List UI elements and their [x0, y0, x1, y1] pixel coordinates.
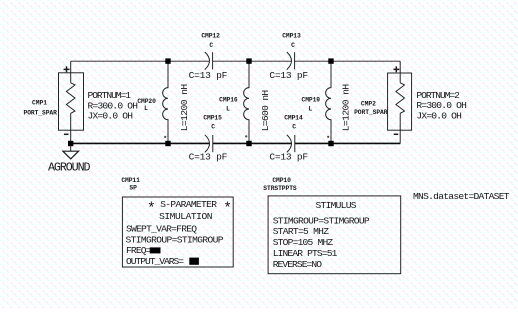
svg-text:MNS.dataset=DATASET: MNS.dataset=DATASET	[413, 191, 510, 202]
svg-text:JX=0.0 OH: JX=0.0 OH	[416, 111, 462, 122]
value box FREQ= filled rect	[150, 247, 161, 253]
svg-text:C: C	[211, 124, 215, 131]
svg-text:C=13 pF: C=13 pF	[189, 70, 228, 81]
svg-text:PORT_SPAR: PORT_SPAR	[24, 109, 58, 116]
svg-text:STOP=105 MHZ: STOP=105 MHZ	[273, 237, 334, 248]
svg-text:CMP15: CMP15	[203, 115, 222, 122]
port CMP2 minus terminal mark	[394, 133, 399, 135]
pin dot CMP20 pin2	[164, 136, 166, 138]
svg-text:CMP13: CMP13	[282, 33, 301, 40]
port CMP1 plus terminal mark	[64, 66, 70, 72]
svg-text:CMP2: CMP2	[361, 101, 376, 108]
svg-text:FREQ=: FREQ=	[126, 245, 152, 256]
pin dot CMP19 pin2	[327, 136, 329, 138]
svg-text:CMP20: CMP20	[137, 98, 156, 105]
svg-text:CMP1: CMP1	[32, 100, 47, 107]
resistor zigzag inside port CMP1	[66, 83, 75, 114]
svg-text:C=13 pF: C=13 pF	[269, 70, 308, 81]
svg-text:STIMGROUP=STIMGROUP: STIMGROUP=STIMGROUP	[126, 235, 224, 246]
port CMP1 PORT_SPAR box	[59, 73, 84, 130]
stimulus box CMP10 STRSTPPTS outline	[268, 196, 401, 274]
junction node bottom rail / CMP19	[328, 141, 333, 146]
wire top rail segment 3 (C13 to port2)	[295, 60, 401, 62]
wire bottom rail segment 1 (port1/ground to C15)	[71, 142, 210, 144]
svg-text:C=13 pF: C=13 pF	[189, 151, 228, 162]
wire port1 vertical (top rail through P1 to ground)	[70, 61, 72, 151]
svg-text:C: C	[291, 42, 295, 49]
svg-text:L=1200 nH: L=1200 nH	[179, 84, 190, 132]
svg-text:S-PARAMETER: S-PARAMETER	[160, 199, 217, 210]
svg-text:LINEAR PTS=51: LINEAR PTS=51	[273, 248, 338, 259]
svg-text:*: *	[223, 201, 232, 217]
wire top rail segment 2 (C12 to C13)	[213, 60, 292, 62]
inductor CMP20 vertical wire and coil	[163, 61, 168, 144]
capacitor CMP13 straight plate	[294, 52, 296, 69]
junction node top rail / CMP16	[246, 58, 251, 63]
capacitor CMP14 curved plate	[287, 135, 292, 153]
svg-text:R=300.0 OH: R=300.0 OH	[416, 100, 467, 111]
svg-text:L: L	[309, 105, 313, 112]
inductor CMP16 vertical wire and coil	[244, 61, 249, 144]
capacitor CMP15 straight plate	[212, 135, 214, 152]
svg-text:CMP19: CMP19	[302, 97, 321, 104]
svg-text:SP: SP	[129, 184, 137, 191]
junction node top rail / CMP19	[328, 58, 333, 63]
svg-text:L: L	[144, 105, 148, 112]
svg-text:*: *	[147, 201, 156, 217]
svg-text:AGROUND: AGROUND	[48, 160, 91, 174]
svg-text:CMP12: CMP12	[201, 33, 220, 40]
junction node bottom rail / ground	[68, 141, 73, 146]
capacitor CMP14 straight plate	[294, 135, 296, 152]
svg-text:SIMULATION: SIMULATION	[159, 211, 212, 222]
wire bottom rail segment 3 (C14 to port2)	[295, 142, 400, 144]
svg-text:C: C	[209, 42, 213, 49]
svg-text:CMP10: CMP10	[272, 177, 291, 184]
svg-text:C=13 pF: C=13 pF	[269, 151, 308, 162]
svg-text:C: C	[292, 124, 296, 131]
svg-text:L: L	[226, 105, 230, 112]
wire bottom rail segment 2 (C15 to C14)	[213, 142, 291, 144]
svg-text:STIMGROUP=STIMGROUP: STIMGROUP=STIMGROUP	[273, 216, 370, 227]
port CMP2 plus terminal mark	[393, 66, 399, 72]
port CMP1 minus terminal mark	[64, 133, 69, 135]
capacitor CMP12 curved plate	[205, 52, 210, 70]
capacitor CMP15 curved plate	[205, 135, 210, 153]
svg-text:CMP16: CMP16	[219, 97, 238, 104]
svg-text:PORT_SPAR: PORT_SPAR	[354, 109, 388, 116]
wire top rail segment 1 (port1 to C12)	[71, 60, 210, 62]
svg-text:CMP14: CMP14	[284, 115, 303, 122]
svg-text:REVERSE=NO: REVERSE=NO	[273, 259, 323, 270]
svg-text:STRSTPPTS: STRSTPPTS	[263, 185, 297, 192]
junction node bottom rail / CMP20	[165, 141, 170, 146]
junction node top rail / CMP20	[165, 58, 170, 63]
svg-text:L=1200 nH: L=1200 nH	[340, 84, 351, 132]
svg-text:CMP11: CMP11	[121, 177, 140, 184]
value box OUTPUT_VARS= filled rect	[189, 258, 199, 265]
capacitor CMP12 straight plate	[212, 52, 214, 69]
svg-text:STIMULUS: STIMULUS	[316, 200, 357, 211]
svg-text:L=600 nH: L=600 nH	[260, 90, 271, 132]
resistor zigzag inside port CMP2	[396, 83, 405, 114]
junction node bottom rail / CMP16	[246, 141, 251, 146]
simulation box CMP11 SP outline	[122, 197, 233, 267]
capacitor CMP13 curved plate	[287, 52, 292, 70]
inductor CMP19 vertical wire and coil	[326, 61, 331, 144]
port CMP2 PORT_SPAR box	[388, 73, 412, 130]
svg-text:JX=0.0 OH: JX=0.0 OH	[88, 110, 134, 121]
ground symbol AGROUND triangle	[63, 151, 79, 159]
wire port2 vertical (top rail through P2 to bottom rail)	[399, 61, 401, 143]
svg-text:PORTNUM=2: PORTNUM=2	[416, 90, 460, 101]
svg-text:START=5 MHZ: START=5 MHZ	[273, 226, 330, 237]
pin dot CMP16 pin2	[245, 135, 247, 137]
svg-text:SWEPT_VAR=FREQ: SWEPT_VAR=FREQ	[126, 224, 197, 235]
svg-text:OUTPUT_VARS=: OUTPUT_VARS=	[126, 256, 184, 267]
